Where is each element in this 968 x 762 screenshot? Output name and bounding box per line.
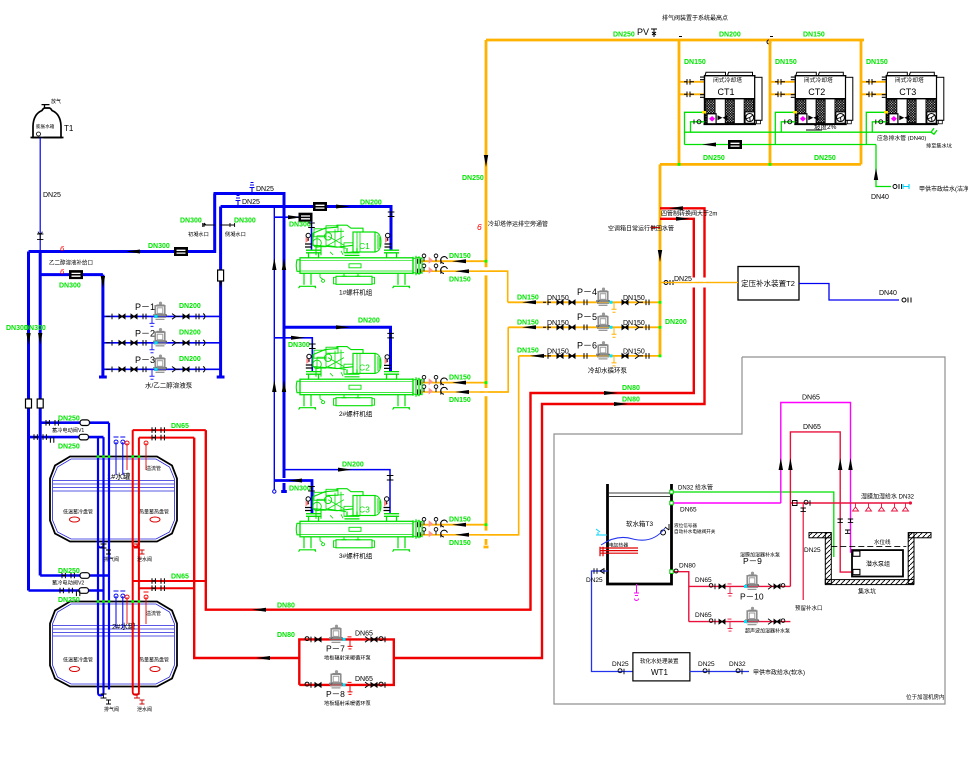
svg-text:蓄冷电动阀V2: 蓄冷电动阀V2 [52, 579, 84, 587]
svg-text:DN65: DN65 [171, 423, 189, 430]
wire: blue coil risers through tanks [97, 437, 99, 689]
left apron [809, 533, 831, 538]
cooling tower CT3 [882, 72, 944, 124]
svg-text:DN25: DN25 [612, 661, 629, 668]
svg-text:DN150: DN150 [547, 320, 569, 327]
vent glyph lower [236, 196, 241, 207]
wire: T2 city water line DN40 (blue) [799, 284, 899, 301]
wire: C3 evap feed DN300 [274, 481, 312, 514]
pump P-1 [153, 302, 168, 320]
bottom slab [825, 580, 914, 585]
red vent tank1 [144, 438, 149, 470]
svg-text:冷却塔停运排空旁通管: 冷却塔停运排空旁通管 [488, 220, 548, 228]
wire: C2 evap feed DN300 [274, 338, 312, 371]
svg-text:6: 6 [477, 222, 482, 232]
svg-text:DN150: DN150 [449, 540, 471, 547]
wire: C2 header DN200 [284, 327, 391, 371]
svg-text:膨胀水箱: 膨胀水箱 [36, 123, 55, 130]
wire: glycol main return DN300 [29, 194, 215, 252]
valve cluster C3 condenser [418, 518, 448, 528]
wire: C1 evap feed DN300 [274, 217, 311, 250]
C1 condenser stub lower DN150 [420, 271, 508, 302]
valve cluster C2 condenser [418, 375, 448, 385]
svg-text:DN65: DN65 [802, 395, 820, 402]
svg-text:DN150: DN150 [449, 253, 471, 260]
wire: CT3 inlet stub upper [861, 81, 886, 83]
wire: pump row P-10 [689, 621, 791, 623]
wire: CT3 inlet stub lower [861, 93, 886, 95]
C3 condenser stub upper DN150 [420, 524, 486, 526]
arrow on pump header [658, 250, 662, 262]
wire: pump row P-1 [103, 315, 221, 317]
svg-text:C1: C1 [359, 241, 370, 251]
svg-text:液位信号器: 液位信号器 [674, 522, 697, 529]
wire: T3 feed green DN32 [672, 492, 834, 557]
right apron [909, 533, 931, 538]
svg-text:DN300: DN300 [59, 283, 81, 290]
basin pit [809, 533, 931, 585]
pump P-5 [596, 313, 611, 331]
drain fittings below tank1 [101, 544, 145, 554]
svg-text:DN200: DN200 [719, 32, 741, 39]
wire: pump row P-3 [103, 368, 221, 370]
svg-text:DN80: DN80 [277, 603, 295, 610]
wire: tank2 discharge row [29, 589, 104, 592]
motor valve V1 [80, 420, 90, 426]
valve cluster P-1 row [106, 314, 205, 327]
cyan drain on T3 [596, 529, 607, 535]
placeholder sections inserted below [418, 14, 968, 547]
expansion tank T1 [33, 108, 61, 138]
svg-text:DN25: DN25 [804, 547, 821, 554]
wire: CT3 feed drop [860, 40, 863, 164]
float switch [661, 524, 669, 535]
wire: tank2 charge row V2 [40, 574, 109, 577]
svg-text:DN200: DN200 [665, 319, 687, 326]
svg-text:初凝水口: 初凝水口 [188, 230, 209, 238]
screw chiller C1 [296, 225, 422, 288]
svg-text:甲供市政给水(洁净): 甲供市政给水(洁净) [919, 185, 968, 193]
wire: tank1 heating row B [139, 437, 194, 439]
arrow on riser [484, 155, 488, 167]
wire: T1 drop DN25 [39, 138, 41, 252]
wire: thin riser x274 [273, 207, 275, 491]
wire: thick riser x284 arrows [282, 258, 286, 270]
svg-text:DN80: DN80 [622, 397, 640, 404]
valve cluster P-6 row [543, 353, 649, 366]
svg-text:DN80: DN80 [622, 385, 640, 392]
wire: heating return DN80 path B [206, 219, 694, 610]
pump P-6 [596, 341, 611, 359]
pump P-3 [153, 355, 168, 373]
svg-text:定压补水装置T2: 定压补水装置T2 [741, 278, 795, 288]
svg-text:冷却水循环泵: 冷却水循环泵 [588, 366, 628, 375]
svg-text:DN150: DN150 [449, 397, 471, 404]
svg-text:C3: C3 [359, 505, 370, 515]
wire: CT2 feed drop [769, 40, 772, 164]
pump P-7 [329, 625, 344, 643]
valves on basin drops [838, 519, 843, 522]
svg-text:DN32: DN32 [729, 661, 746, 668]
riser annotation lower [652, 226, 660, 230]
svg-text:DN25: DN25 [43, 192, 61, 199]
svg-text:地板辐射采暖循环泵: 地板辐射采暖循环泵 [324, 699, 371, 707]
pump P-4 [596, 288, 611, 306]
red vent tank2 [144, 592, 149, 624]
screw chiller C3 [296, 489, 422, 552]
svg-text:DN200: DN200 [342, 462, 364, 469]
svg-text:DN32 给水管: DN32 给水管 [678, 484, 713, 492]
wire: red coil risers through tanks [132, 430, 134, 689]
wire: loop to tanks segment [194, 438, 299, 658]
svg-text:DN300: DN300 [288, 342, 310, 349]
valve cluster P-8 row [305, 682, 385, 694]
wire: left riser to tanks x28 [27, 252, 30, 591]
svg-text:DN65: DN65 [695, 612, 712, 619]
valve cluster P-9 [709, 584, 785, 596]
valve cluster pump rows [543, 300, 649, 313]
wire: pump row P-2 [103, 342, 221, 344]
svg-text:水位线: 水位线 [874, 538, 891, 546]
cooling tower CT2 [791, 72, 853, 124]
svg-text:DN300: DN300 [180, 218, 202, 225]
wire: heating supply DN80 path A [394, 208, 705, 658]
pressurisation unit T2 [738, 267, 799, 301]
svg-text:3#螺杆机组: 3#螺杆机组 [339, 551, 373, 560]
svg-text:DN65: DN65 [680, 507, 697, 514]
wire: C3 header DN200 [284, 470, 390, 514]
svg-text:DN300: DN300 [289, 486, 311, 493]
svg-text:DN150: DN150 [517, 320, 539, 327]
pump P-2 [153, 328, 168, 346]
svg-text:P－1: P－1 [135, 302, 155, 312]
pump P-10 [745, 607, 760, 625]
svg-text:泄水阀: 泄水阀 [137, 706, 152, 713]
wire: CT1 inlet stub lower [679, 93, 705, 95]
valve cluster P-7 row [305, 637, 385, 649]
pump P-9 [745, 572, 760, 590]
svg-text:DN200: DN200 [179, 356, 201, 363]
svg-text:DN25: DN25 [242, 199, 260, 206]
svg-text:DN65: DN65 [171, 574, 189, 581]
svg-text:DN200: DN200 [358, 318, 380, 325]
screw chiller C2 [296, 347, 422, 410]
svg-text:DN40: DN40 [871, 194, 889, 201]
wire: spare connection [802, 503, 804, 600]
svg-text:DN150: DN150 [449, 277, 471, 284]
glyphs on T2 line [664, 280, 673, 285]
svg-text:DN250: DN250 [58, 444, 80, 451]
valve on T1 drop [37, 232, 43, 240]
wire: WT1 outlet blue [690, 671, 749, 673]
wire: pump discharge header x224 [217, 207, 225, 378]
svg-text:CT3: CT3 [899, 87, 916, 97]
wire: red humidifier loop [790, 432, 853, 587]
pump row P-5 [508, 326, 660, 328]
svg-text:P－5: P－5 [577, 312, 597, 322]
svg-text:P－6: P－6 [577, 341, 597, 351]
wire: tank1 discharge row [29, 436, 104, 439]
svg-text:DN150: DN150 [803, 32, 825, 39]
vent pipes tank2 [116, 596, 123, 628]
svg-text:湿膜加湿器补水泵: 湿膜加湿器补水泵 [740, 552, 780, 559]
svg-text:软化水处理装置: 软化水处理装置 [640, 657, 679, 665]
svg-text:1#螺杆机组: 1#螺杆机组 [339, 288, 373, 297]
svg-text:2#螺杆机组: 2#螺杆机组 [339, 409, 373, 418]
drain fittings below tank2 [101, 694, 145, 704]
svg-text:DN250: DN250 [462, 175, 484, 182]
right wall [908, 533, 914, 584]
svg-text:热量蓄热盘管: 热量蓄热盘管 [139, 657, 169, 664]
svg-text:应急排水管 (DN40): 应急排水管 (DN40) [877, 134, 926, 142]
svg-text:闭式冷却塔: 闭式冷却塔 [804, 76, 833, 84]
svg-text:DN25: DN25 [698, 661, 715, 668]
svg-text:1#水罐: 1#水罐 [107, 471, 131, 481]
svg-text:低温蓄冷盘管: 低温蓄冷盘管 [63, 509, 93, 516]
wire: left riser to tanks x40 [39, 252, 42, 576]
wire: CT1 drain drop A [685, 112, 705, 144]
drain stubs near headers [203, 223, 215, 227]
svg-text:放气: 放气 [51, 98, 61, 105]
svg-text:DN80: DN80 [679, 563, 696, 570]
svg-text:DN250: DN250 [58, 568, 80, 575]
svg-text:DN150: DN150 [517, 348, 539, 355]
svg-text:P－3: P－3 [135, 355, 155, 365]
svg-text:DN200: DN200 [179, 303, 201, 310]
slope annotation [806, 129, 822, 131]
svg-text:乙二醇溶液补给口: 乙二醇溶液补给口 [49, 259, 93, 267]
svg-text:DN300: DN300 [24, 325, 46, 332]
wire: cooling water main riser DN250 left [484, 40, 489, 547]
svg-text:排气阀装置于系统最高点: 排气阀装置于系统最高点 [662, 14, 728, 22]
svg-text:DN150: DN150 [623, 295, 645, 302]
svg-text:DN250: DN250 [58, 597, 80, 604]
svg-text:超声波加湿器补水泵: 超声波加湿器补水泵 [745, 628, 790, 635]
wire: condenser pump header riser [659, 164, 662, 356]
filter on drain header [729, 141, 742, 149]
C3 condenser stub lower DN150 [420, 356, 519, 535]
svg-text:DN150: DN150 [623, 320, 645, 327]
pump row P-6 [519, 355, 660, 357]
coil U-bends at tank bottoms [98, 690, 104, 696]
wire: tank1 heating row A [133, 429, 206, 431]
svg-text:甲供市政给水(软水): 甲供市政给水(软水) [753, 669, 805, 677]
valve cluster C1 condenser [418, 254, 448, 264]
pump row P-4 [508, 301, 660, 303]
svg-text:DN25: DN25 [586, 577, 603, 584]
wire: CT3 drain drop B [872, 122, 886, 132]
wire: CT2 inlet stub lower [770, 93, 795, 95]
magenta drain below T3 [634, 584, 639, 601]
wire: T2 makeup line [660, 282, 738, 284]
svg-text:蓄冷电动阀V1: 蓄冷电动阀V1 [52, 426, 84, 434]
yellow ticks at tower drain ports [702, 111, 888, 114]
wire: drain header lower [685, 144, 877, 146]
svg-text:DN150: DN150 [449, 517, 471, 524]
svg-text:DN80: DN80 [277, 632, 295, 639]
svg-text:地板辐射采暖循环泵: 地板辐射采暖循环泵 [324, 654, 371, 662]
svg-text:P－8: P－8 [326, 689, 345, 699]
wire: header DN200 to C1 [221, 207, 391, 251]
svg-text:DN300: DN300 [289, 222, 311, 229]
level sensor cable [601, 528, 665, 545]
ice storage tank 2 [50, 602, 177, 687]
wire: tank2 heating row B [139, 587, 194, 589]
svg-text:DN250: DN250 [613, 32, 635, 39]
svg-text:闭式冷却塔: 闭式冷却塔 [895, 76, 924, 84]
svg-text:侧凝水口: 侧凝水口 [225, 230, 246, 238]
vent pipes tank1 [116, 442, 123, 475]
wire: top header DN25 vent upper [214, 194, 287, 492]
wire: emergency drain header upper [685, 131, 932, 133]
glyphs on city water [902, 298, 911, 303]
valve glyphs on chiller blue drops [305, 223, 315, 247]
svg-text:DN250: DN250 [58, 415, 80, 422]
svg-text:DN25: DN25 [256, 186, 274, 193]
svg-text:DN250: DN250 [814, 155, 836, 162]
svg-text:四管制转换阀大于2m: 四管制转换阀大于2m [661, 210, 717, 218]
svg-text:WT1: WT1 [651, 668, 668, 677]
water treatment unit WT1 [633, 653, 690, 681]
svg-text:空调箱日常运行供回水管: 空调箱日常运行供回水管 [608, 225, 674, 233]
sprinkler heads [853, 503, 909, 511]
svg-text:水/乙二醇溶液泵: 水/乙二醇溶液泵 [145, 381, 193, 390]
wire: CT1 feed drop [678, 40, 681, 164]
svg-text:DN150: DN150 [547, 349, 569, 356]
svg-text:P－7: P－7 [326, 644, 345, 654]
wire: CT1 inlet stub upper [679, 81, 705, 83]
valves on tower stubs [684, 79, 876, 97]
wire: T3 suction blue DN25 [592, 571, 633, 672]
wire: T3 to pumps red DN80 [672, 572, 689, 622]
svg-text:坡度2%: 坡度2% [814, 122, 837, 131]
wire: CT3 drain drop A [866, 112, 886, 144]
svg-text:DN200: DN200 [179, 329, 201, 336]
wire: cooling water top header DN250 [486, 39, 864, 42]
svg-text:排至集水坑: 排至集水坑 [926, 142, 952, 150]
glyphs on clean water [893, 184, 902, 189]
wire: T3 magenta DN65 [672, 502, 781, 504]
wire: CT2 drain drop B [781, 122, 795, 132]
room outline [554, 357, 945, 704]
wire: P-7 pump branch [299, 639, 394, 685]
wire: tank2 heating row A [133, 580, 206, 582]
svg-text:集水坑: 集水坑 [858, 588, 876, 596]
C2 condenser stub upper DN150 [420, 382, 486, 384]
svg-text:DN300: DN300 [234, 218, 256, 225]
svg-text:DN150: DN150 [775, 59, 797, 66]
svg-text:DN65: DN65 [355, 676, 373, 683]
arrows on red mains [669, 206, 683, 210]
valve cluster P-5 row [543, 325, 649, 338]
crossing breaks on red risers [694, 278, 705, 288]
svg-text:泄水阀: 泄水阀 [137, 556, 152, 563]
svg-text:自动补水电磁阀开关: 自动补水电磁阀开关 [674, 528, 716, 535]
left wall [825, 533, 831, 584]
flow meter on discharge header [218, 270, 224, 281]
svg-text:P－10: P－10 [740, 592, 764, 602]
electric heater [600, 547, 638, 557]
svg-text:溢流管: 溢流管 [146, 465, 161, 472]
C2 condenser stub lower DN150 [420, 327, 508, 392]
svg-text:热量蓄热盘管: 热量蓄热盘管 [139, 509, 169, 516]
cooling tower CT1 [700, 72, 762, 124]
drain valve glyphs [694, 120, 701, 125]
valve cluster P-3 row [106, 367, 205, 380]
svg-text:潜水泵组: 潜水泵组 [866, 560, 890, 568]
wire: clean city water drop [876, 145, 891, 187]
svg-text:DN150: DN150 [547, 295, 569, 302]
submersible pump unit [852, 550, 903, 576]
svg-text:DN150: DN150 [517, 295, 539, 302]
svg-text:PV: PV [637, 27, 649, 37]
svg-text:软水箱T3: 软水箱T3 [626, 519, 653, 528]
valve cluster P-2 row [106, 340, 205, 353]
wire: CT2 inlet stub upper [770, 81, 795, 83]
svg-text:电加热器: 电加热器 [609, 542, 628, 549]
svg-text:位于加湿机房内: 位于加湿机房内 [906, 693, 945, 701]
wire: CT2 drain drop A [775, 112, 795, 144]
valve cluster P-10 row [709, 619, 785, 631]
svg-text:DN150: DN150 [684, 59, 706, 66]
svg-text:DN150: DN150 [866, 59, 888, 66]
main riser crossing breaks [484, 267, 487, 539]
wire: pump suction header x103 [99, 275, 107, 377]
svg-text:湿膜加湿给水 DN32: 湿膜加湿给水 DN32 [861, 493, 915, 501]
flow meters on risers [26, 399, 32, 408]
svg-text:低温蓄冷盘管: 低温蓄冷盘管 [63, 657, 93, 664]
wire: CT1 drain drop B [691, 122, 705, 132]
svg-text:CT2: CT2 [808, 87, 825, 97]
svg-text:DN200: DN200 [360, 200, 382, 207]
water level dash [831, 546, 906, 548]
svg-text:P－4: P－4 [577, 287, 597, 297]
pump P-8 [329, 670, 344, 688]
svg-text:排气阀: 排气阀 [104, 556, 119, 563]
svg-text:DN40: DN40 [879, 290, 897, 297]
svg-text:排气阀: 排气阀 [104, 706, 119, 713]
svg-text:DN65: DN65 [803, 424, 821, 431]
svg-text:T1: T1 [64, 124, 74, 133]
svg-text:预留补水口: 预留补水口 [795, 604, 823, 612]
pipe break symbol [931, 128, 937, 134]
svg-text:DN250: DN250 [703, 155, 725, 162]
svg-text:DN65: DN65 [355, 630, 373, 637]
svg-text:DN150: DN150 [623, 349, 645, 356]
svg-text:DN300: DN300 [148, 243, 170, 250]
svg-text:DN150: DN150 [449, 375, 471, 382]
wire: tank1 charge row V1 [40, 421, 109, 424]
wire: glycol supply DN300 lower [40, 273, 103, 276]
wire: pump row P-9 [689, 585, 791, 587]
wire: magenta loop [781, 403, 853, 553]
vent glyph upper [250, 183, 255, 194]
wire: tower bottom manifold DN250 [660, 163, 861, 166]
svg-text:P－2: P－2 [135, 328, 155, 338]
svg-text:闭式冷却塔: 闭式冷却塔 [713, 76, 742, 84]
wire: humidifier spray line DN32 [790, 502, 910, 504]
ice storage tank 1 [50, 457, 177, 542]
C1 condenser stub upper DN150 [420, 260, 486, 262]
soft water tank T3 [608, 484, 672, 584]
svg-text:CT1: CT1 [718, 87, 735, 97]
svg-text:溢流管: 溢流管 [146, 610, 161, 617]
svg-text:DN65: DN65 [695, 577, 712, 584]
arrow on drain header [702, 143, 716, 147]
svg-text:C2: C2 [359, 362, 370, 372]
